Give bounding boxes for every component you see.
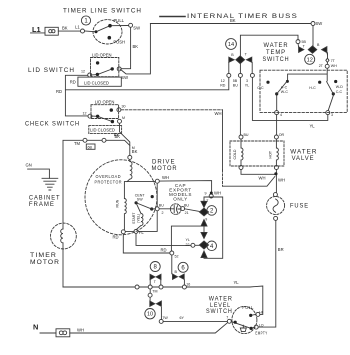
svg-text:CHECK SWITCH: CHECK SWITCH xyxy=(25,121,80,128)
svg-text:2: 2 xyxy=(162,211,164,215)
svg-text:BK: BK xyxy=(132,149,138,154)
svg-text:C-C: C-C xyxy=(336,90,343,94)
svg-text:OR: OR xyxy=(279,133,285,137)
svg-text:H-C: H-C xyxy=(309,86,316,90)
svg-text:PULL: PULL xyxy=(114,18,125,23)
svg-text:9: 9 xyxy=(205,217,207,221)
svg-text:2T: 2T xyxy=(319,64,324,68)
svg-text:EMPTY: EMPTY xyxy=(255,330,267,335)
timer motor xyxy=(51,223,77,249)
check switch xyxy=(91,105,119,119)
svg-text:RD: RD xyxy=(56,89,62,94)
svg-text:HI: HI xyxy=(259,310,263,314)
node M BK motor terminal xyxy=(128,155,132,159)
svg-text:PUSH: PUSH xyxy=(113,39,125,44)
contact 14 xyxy=(229,57,234,62)
svg-text:12: 12 xyxy=(81,70,85,74)
svg-text:7W: 7W xyxy=(162,316,168,320)
svg-text:7T: 7T xyxy=(331,59,336,63)
wire BR fuse to water level switch xyxy=(258,221,276,328)
node fuse junction xyxy=(274,172,277,175)
wire YL rail to water level switch HI xyxy=(63,286,263,314)
svg-text:10: 10 xyxy=(147,312,153,318)
wire check switch M to motor xyxy=(120,123,130,155)
water temp switch box xyxy=(260,70,347,112)
wire 3 YL to water temp switch terminal 3 xyxy=(252,78,327,121)
svg-text:COLD: COLD xyxy=(233,149,237,159)
connector N OD xyxy=(56,329,70,337)
contact 8 xyxy=(150,262,160,272)
svg-text:22: 22 xyxy=(186,243,190,247)
svg-text:LO: LO xyxy=(259,323,264,327)
svg-text:6: 6 xyxy=(181,266,185,272)
svg-text:T: T xyxy=(206,199,209,203)
svg-text:4: 4 xyxy=(210,244,214,250)
svg-text:5B: 5B xyxy=(302,40,307,44)
svg-text:5B: 5B xyxy=(233,79,238,83)
svg-text:GN: GN xyxy=(26,163,32,168)
hot valve solenoid OR xyxy=(274,135,278,139)
svg-text:INTERNAL TIMER BUSS: INTERNAL TIMER BUSS xyxy=(187,13,298,20)
svg-text:16: 16 xyxy=(186,282,190,286)
svg-text:3: 3 xyxy=(331,113,333,117)
svg-text:WH: WH xyxy=(259,176,266,181)
water valve box xyxy=(230,141,284,166)
svg-text:RD: RD xyxy=(70,80,76,85)
svg-text:SW: SW xyxy=(121,75,128,80)
svg-text:21: 21 xyxy=(185,211,189,215)
wire check switch 30 WH path xyxy=(121,109,223,111)
svg-text:(YEL): (YEL) xyxy=(136,214,140,223)
svg-text:VALVE: VALVE xyxy=(292,155,315,162)
svg-text:W-D: W-D xyxy=(336,85,344,89)
svg-text:B: B xyxy=(175,270,178,274)
svg-text:LID SWITCH: LID SWITCH xyxy=(28,67,75,74)
svg-text:RD: RD xyxy=(113,235,119,240)
svg-text:L1: L1 xyxy=(32,25,41,34)
motor FL terminal xyxy=(134,229,138,233)
wire contact 12 right to 7T 2T WH xyxy=(326,53,328,64)
svg-text:9: 9 xyxy=(205,192,207,196)
contact 4 xyxy=(201,232,207,238)
svg-text:B: B xyxy=(317,43,320,47)
svg-text:BK: BK xyxy=(230,18,236,23)
wire BK timer line switch SW drop xyxy=(121,27,130,68)
svg-text:FULL: FULL xyxy=(242,305,254,310)
svg-text:12: 12 xyxy=(221,79,225,83)
svg-text:YL: YL xyxy=(310,123,316,128)
svg-text:FRAME: FRAME xyxy=(29,201,55,208)
svg-text:12: 12 xyxy=(83,111,87,115)
connector L1 xyxy=(45,27,58,35)
svg-text:MOTOR: MOTOR xyxy=(152,165,178,172)
wire water level switch LO stub xyxy=(251,327,254,328)
svg-text:TM: TM xyxy=(74,141,81,146)
svg-text:YL: YL xyxy=(186,238,190,242)
svg-text:OVERLOAD: OVERLOAD xyxy=(96,174,122,179)
svg-text:BU: BU xyxy=(233,84,238,88)
svg-text:52: 52 xyxy=(175,255,179,259)
timer line switch xyxy=(93,20,122,44)
rail terminals xyxy=(135,285,139,289)
svg-text:LID OPEN: LID OPEN xyxy=(95,100,115,105)
svg-text:T: T xyxy=(303,44,306,48)
wire water temp switch internal xyxy=(288,68,328,81)
svg-text:TEMP: TEMP xyxy=(266,49,286,56)
wire water level switch HI stub xyxy=(251,314,256,315)
svg-text:T: T xyxy=(154,280,157,284)
svg-text:B: B xyxy=(231,53,234,57)
svg-text:BK: BK xyxy=(62,26,68,31)
wire L1 lead xyxy=(31,31,81,33)
svg-text:30: 30 xyxy=(122,105,126,109)
svg-text:3: 3 xyxy=(246,79,248,83)
fuse F1 xyxy=(267,197,285,215)
wire water temp switch pivots to terminals 4 and 3 xyxy=(277,96,334,111)
svg-text:FL: FL xyxy=(139,230,145,235)
svg-text:MOTOR: MOTOR xyxy=(30,259,60,266)
svg-text:L1: L1 xyxy=(75,25,80,30)
svg-text:LID OPEN: LID OPEN xyxy=(92,52,112,57)
svg-text:FUSE: FUSE xyxy=(290,203,309,210)
svg-text:WH: WH xyxy=(214,191,221,196)
wire contact C legs xyxy=(150,289,161,319)
wire terminal 4 to hot valve OR xyxy=(276,115,278,135)
legend line xyxy=(160,16,185,18)
svg-text:12: 12 xyxy=(307,57,313,63)
water temp switch contacts xyxy=(266,81,269,84)
svg-text:6B: 6B xyxy=(88,145,93,149)
svg-text:TIMER LINE SWITCH: TIMER LINE SWITCH xyxy=(63,8,142,15)
svg-text:H-C: H-C xyxy=(281,86,288,90)
svg-text:RD: RD xyxy=(161,247,167,252)
wire cold valve bottom xyxy=(241,170,275,175)
svg-text:7: 7 xyxy=(226,316,228,320)
contact 6 xyxy=(178,262,188,272)
wire RD from 12 terminal to lid switch xyxy=(65,78,228,90)
svg-text:RD: RD xyxy=(220,84,226,88)
svg-text:YL: YL xyxy=(234,280,240,285)
svg-text:C-C: C-C xyxy=(257,86,264,90)
wire buss drop to lid switch xyxy=(121,24,151,74)
contact 2 xyxy=(201,201,207,207)
wire motor RD to 52 junction xyxy=(123,234,169,253)
node 52 junction xyxy=(170,251,174,255)
capacitor C1 export models xyxy=(170,204,181,215)
motor run winding xyxy=(124,199,126,230)
svg-text:4: 4 xyxy=(280,113,282,117)
svg-text:SWITCH: SWITCH xyxy=(263,56,290,63)
overload protector heater coil xyxy=(127,159,132,181)
wire SW drop to contact 12 xyxy=(312,26,314,46)
svg-text:BU: BU xyxy=(244,133,249,137)
contact C xyxy=(148,293,152,297)
wire contact 8 legs xyxy=(150,280,161,285)
drive motor circle xyxy=(85,160,157,235)
wire motor WH to contact 2 box xyxy=(159,181,211,194)
svg-text:8: 8 xyxy=(154,265,158,271)
water level switch xyxy=(232,306,257,333)
svg-text:WH: WH xyxy=(278,177,285,182)
svg-text:BU: BU xyxy=(184,203,189,207)
wire contact 6 to rail xyxy=(183,280,185,285)
svg-text:SW: SW xyxy=(316,21,323,26)
wire GN ground lead xyxy=(28,169,50,178)
water level switch diaphragm xyxy=(240,325,246,331)
svg-text:BR: BR xyxy=(278,247,284,252)
svg-text:RUN: RUN xyxy=(116,199,120,207)
contact 2 and 4 box xyxy=(204,197,223,258)
svg-text:YL: YL xyxy=(245,84,249,88)
node SW buss xyxy=(311,22,315,26)
wire WH to fuse junction xyxy=(223,177,275,187)
ground cabinet frame xyxy=(42,178,58,190)
wire hot valve bottom to fuse xyxy=(275,170,277,193)
contact 12 xyxy=(299,47,304,53)
svg-text:BK: BK xyxy=(115,134,121,139)
svg-text:SW: SW xyxy=(133,26,140,31)
wire 6Y to water level switch 7 xyxy=(163,320,227,322)
svg-text:WATER: WATER xyxy=(264,42,289,49)
wire contact 14 outputs xyxy=(229,62,252,73)
motor centrifugal switch xyxy=(135,201,138,204)
svg-text:HOT: HOT xyxy=(269,150,273,158)
wire step contact 2 to 52 junction xyxy=(171,226,204,274)
svg-text:2: 2 xyxy=(210,209,214,215)
svg-text:W-C: W-C xyxy=(281,90,289,94)
internal timer buss BK wire xyxy=(150,23,311,25)
svg-text:T: T xyxy=(245,53,248,57)
wire lid switch left vertical xyxy=(65,75,88,116)
motor RD terminal xyxy=(121,230,125,234)
svg-text:N: N xyxy=(33,323,38,332)
wire timer motor feed TM xyxy=(63,140,130,287)
cold valve solenoid BU xyxy=(239,135,243,139)
svg-text:ONLY: ONLY xyxy=(173,197,188,202)
svg-text:LID CLOSED: LID CLOSED xyxy=(90,128,115,133)
svg-text:BU: BU xyxy=(159,203,164,207)
svg-text:WH: WH xyxy=(331,64,337,68)
wire FL YL to contact 4 xyxy=(136,234,200,246)
wire N rail xyxy=(40,323,228,333)
svg-text:BK: BK xyxy=(133,44,139,49)
motor start winding xyxy=(136,205,143,230)
lid switch xyxy=(91,58,119,77)
motor BU terminal xyxy=(155,207,159,211)
svg-text:WH: WH xyxy=(215,111,222,116)
svg-text:TM: TM xyxy=(152,289,157,293)
svg-text:LID CLOSED: LID CLOSED xyxy=(84,81,109,86)
svg-text:SW: SW xyxy=(137,198,143,202)
connector TM 6B xyxy=(83,138,87,142)
svg-text:WH: WH xyxy=(77,328,84,333)
wire BU 5B to cold valve xyxy=(239,78,241,135)
wire 5B net to contact 14 xyxy=(240,35,298,56)
motor inner box xyxy=(124,182,157,232)
svg-text:1: 1 xyxy=(84,19,88,25)
svg-text:M: M xyxy=(122,116,125,120)
svg-text:PROTECTOR: PROTECTOR xyxy=(95,179,123,184)
svg-text:TIMER: TIMER xyxy=(30,252,57,259)
svg-text:WH: WH xyxy=(162,175,169,180)
motor WH terminal xyxy=(155,179,159,183)
svg-text:14: 14 xyxy=(228,42,234,48)
svg-text:SWITCH: SWITCH xyxy=(206,308,233,315)
svg-text:6Y: 6Y xyxy=(180,316,185,320)
